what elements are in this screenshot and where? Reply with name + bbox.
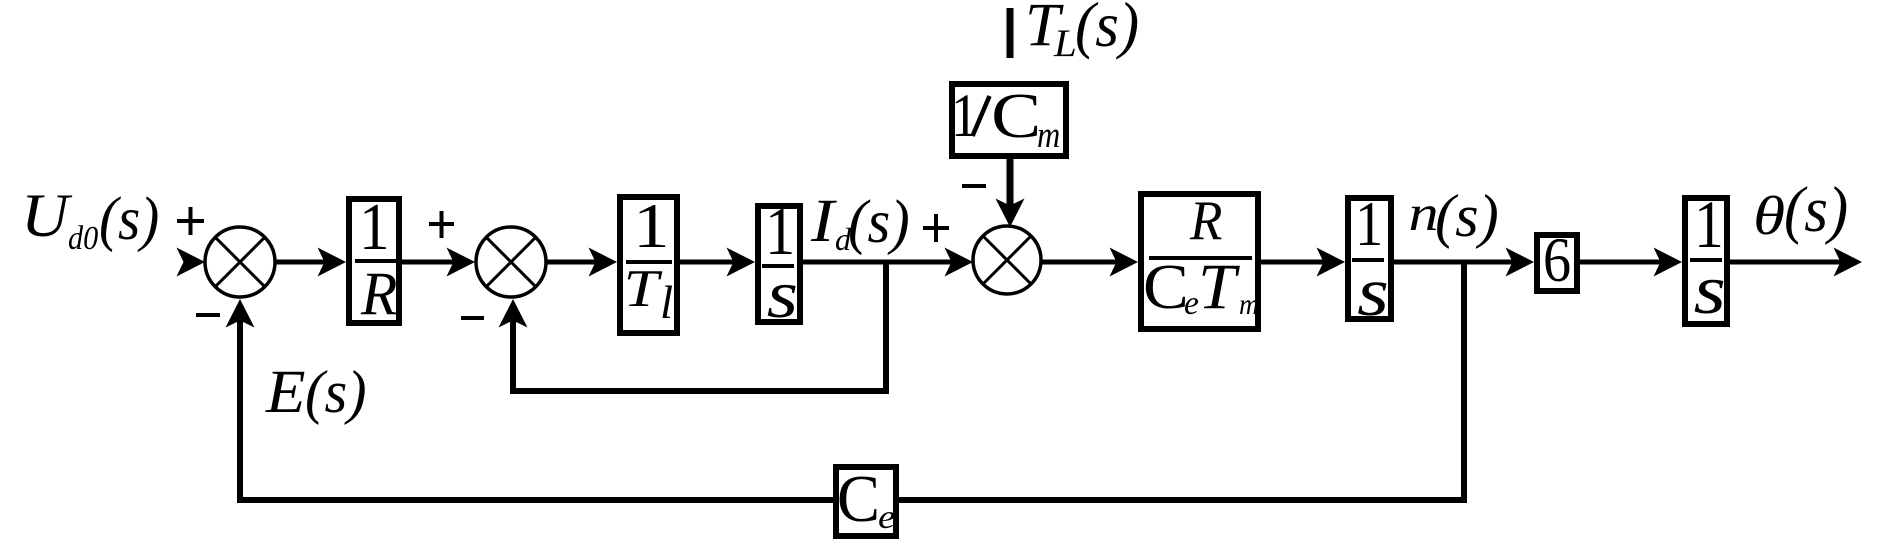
- svg-text:T: T: [624, 259, 663, 318]
- svg-text:m: m: [1037, 114, 1060, 155]
- svg-text:C: C: [1143, 252, 1189, 322]
- svg-text:T: T: [1198, 251, 1240, 322]
- svg-text:(s): (s): [1435, 183, 1499, 250]
- svg-text:(s): (s): [848, 188, 910, 256]
- svg-text:s: s: [767, 256, 798, 332]
- svg-text:(s): (s): [1075, 0, 1139, 60]
- svg-text:L: L: [1053, 22, 1077, 65]
- svg-text:s: s: [1357, 253, 1389, 330]
- svg-text:e: e: [878, 499, 896, 536]
- svg-text:R: R: [1189, 190, 1222, 252]
- svg-text:s: s: [1694, 251, 1726, 329]
- svg-text:1: 1: [1355, 188, 1383, 259]
- svg-text:C: C: [837, 463, 880, 536]
- svg-text:1: 1: [359, 189, 390, 264]
- svg-text:θ: θ: [1753, 185, 1785, 246]
- svg-text:d0: d0: [68, 220, 98, 257]
- svg-text:U: U: [21, 182, 73, 250]
- svg-text:(s): (s): [1784, 174, 1848, 246]
- svg-text:(s): (s): [99, 185, 159, 253]
- svg-text:E: E: [265, 358, 306, 426]
- svg-text:1: 1: [633, 191, 670, 261]
- svg-text:6: 6: [1543, 224, 1571, 295]
- svg-text:l: l: [660, 277, 673, 329]
- svg-text:1: 1: [951, 82, 978, 150]
- svg-text:C: C: [991, 80, 1041, 151]
- svg-text:(s): (s): [305, 359, 367, 426]
- svg-text:e: e: [1184, 285, 1199, 322]
- svg-text:I: I: [810, 187, 837, 255]
- svg-text:R: R: [360, 261, 397, 328]
- svg-text:m: m: [1239, 289, 1259, 321]
